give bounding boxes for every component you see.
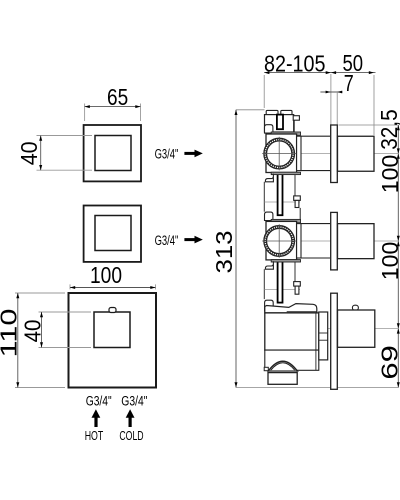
svg-text:69: 69 (376, 345, 400, 380)
svg-text:7: 7 (344, 70, 354, 96)
svg-text:82-105: 82-105 (264, 50, 326, 76)
svg-text:G3/4": G3/4" (155, 147, 179, 162)
svg-text:40: 40 (16, 141, 42, 165)
svg-text:100: 100 (90, 262, 122, 288)
svg-text:313: 313 (211, 231, 237, 274)
svg-text:G3/4": G3/4" (86, 393, 112, 408)
svg-text:40: 40 (20, 320, 46, 343)
svg-text:110: 110 (0, 309, 22, 358)
svg-text:HOT: HOT (85, 429, 104, 443)
svg-text:100: 100 (377, 242, 400, 281)
svg-text:G3/4": G3/4" (155, 233, 179, 248)
svg-text:G3/4": G3/4" (121, 393, 147, 408)
svg-text:65: 65 (107, 84, 128, 110)
svg-text:COLD: COLD (119, 429, 143, 443)
svg-text:32,5: 32,5 (376, 109, 400, 150)
svg-text:100: 100 (377, 155, 400, 194)
